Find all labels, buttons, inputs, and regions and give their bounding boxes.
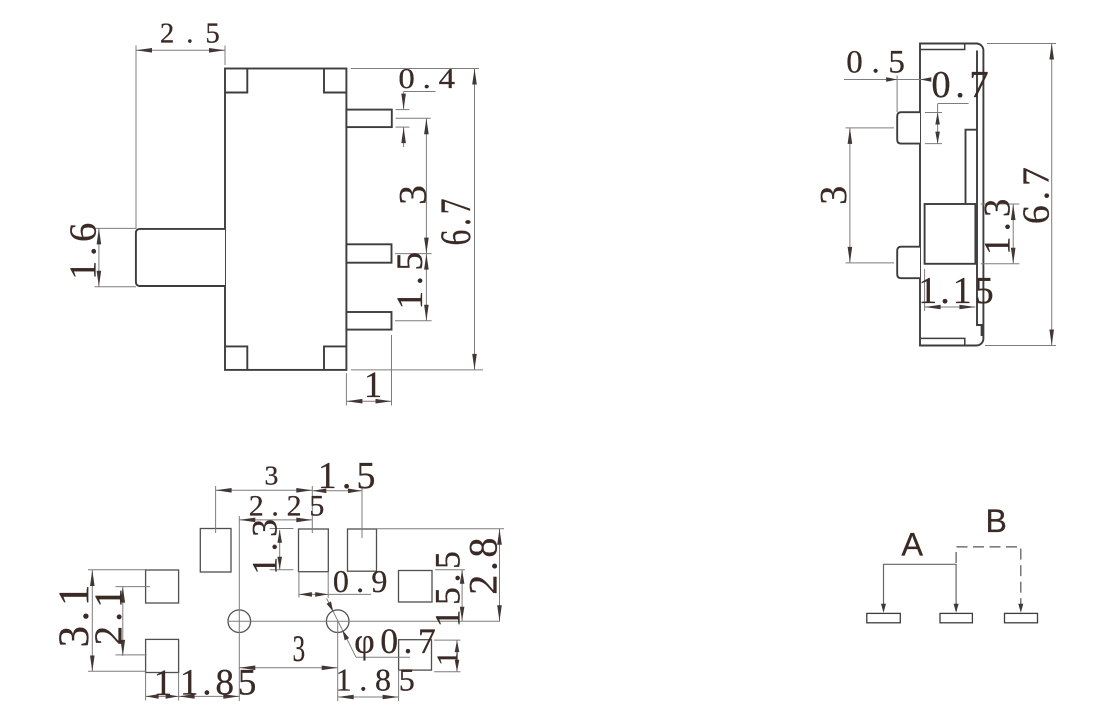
dim 2.8 pads to center xyxy=(377,529,506,622)
side view: bottom inner step xyxy=(921,338,965,345)
front view: switch body xyxy=(225,69,346,370)
svg-text:0.9: 0.9 xyxy=(333,563,395,599)
dim 1.6 handle height xyxy=(62,218,136,287)
footprint: circle1 vertical line xyxy=(238,516,240,701)
svg-text:3: 3 xyxy=(264,460,278,491)
footprint: pad 5 left upper xyxy=(146,570,179,603)
side view: actuator block xyxy=(925,204,976,264)
footprint: pad 6 left lower xyxy=(146,639,179,672)
footprint: center line xyxy=(228,620,501,622)
dim 3 bump pitch xyxy=(813,128,894,263)
front view: slider handle xyxy=(136,229,225,286)
side view: top inner step xyxy=(921,44,965,50)
dim 6.7 overall height xyxy=(351,69,483,370)
svg-text:1.85: 1.85 xyxy=(180,663,260,704)
dim 1 pad6 width xyxy=(146,663,179,704)
footprint: pad 2 middle xyxy=(299,529,329,572)
side view: inner ledge xyxy=(966,130,978,204)
svg-text:1: 1 xyxy=(364,364,382,405)
footprint: hole circle 1 xyxy=(228,610,251,633)
diagram: A connection path xyxy=(881,564,959,613)
diagram: terminal 2 xyxy=(940,613,972,622)
dim 0.7 bump width xyxy=(925,64,993,143)
diagram: terminal 3 xyxy=(1005,613,1038,622)
svg-text:0.7: 0.7 xyxy=(931,64,993,106)
front view: corner notches xyxy=(225,69,346,370)
svg-text:B: B xyxy=(986,503,1007,539)
dim 0.4 pin thickness xyxy=(396,63,463,147)
svg-text:φ0.7: φ0.7 xyxy=(354,621,441,661)
dim 1.5 pad pitch xyxy=(312,455,380,538)
svg-text:1.3: 1.3 xyxy=(244,513,284,574)
svg-text:1.5: 1.5 xyxy=(390,246,431,309)
dim 1.15 block width xyxy=(918,269,996,312)
svg-text:6.7: 6.7 xyxy=(1015,162,1057,224)
diagram: position B label xyxy=(986,503,1007,539)
side view: terminal bump 2 xyxy=(897,247,920,279)
svg-text:1.3: 1.3 xyxy=(977,194,1018,255)
footprint: hole circle 2 xyxy=(326,610,349,633)
dim 1.85 left xyxy=(179,663,261,704)
svg-text:3: 3 xyxy=(813,186,855,205)
dim 1 pin length xyxy=(346,335,391,406)
dim 1.3 block height xyxy=(977,194,1020,264)
side view: cover inner edge xyxy=(977,51,982,337)
dim 3 pad pitch xyxy=(216,460,313,533)
dim 2.1 pad pitch left xyxy=(87,584,150,656)
footprint: pad 4 right xyxy=(399,571,433,603)
dim 3.1 pads overall xyxy=(51,570,146,672)
side view: terminal bump 1 xyxy=(897,112,920,143)
front view: pin 1 xyxy=(346,110,391,128)
footprint: pad 1 top-left xyxy=(200,529,231,573)
svg-text:3: 3 xyxy=(391,185,435,205)
dim 6.7 overall height side xyxy=(985,44,1057,346)
svg-text:3: 3 xyxy=(292,628,305,669)
dim phi0.7 hole diameter leader xyxy=(327,598,442,661)
dim 1 pad7 height xyxy=(430,640,465,672)
side view: body outline xyxy=(920,44,983,346)
svg-text:6.7: 6.7 xyxy=(432,195,480,246)
svg-text:0.5: 0.5 xyxy=(846,45,913,81)
dim 2.5 handle travel xyxy=(136,18,232,229)
footprint: pad 7 bottom right xyxy=(399,640,432,670)
svg-text:A: A xyxy=(901,526,923,562)
dim 15.5 pad to center xyxy=(427,547,467,628)
svg-text:1.85: 1.85 xyxy=(336,662,423,698)
diagram: B connection path dashed xyxy=(956,547,1023,613)
diagram: terminal 1 xyxy=(867,613,901,622)
dim 0.9 pad width xyxy=(299,563,395,599)
svg-text:2.8: 2.8 xyxy=(461,534,506,595)
dim 0.5 bump protrusion xyxy=(844,45,931,112)
svg-text:1.15: 1.15 xyxy=(918,270,996,312)
dim 3 pin pitch xyxy=(391,118,435,253)
svg-text:0.4: 0.4 xyxy=(398,63,462,95)
front view: pin 3 xyxy=(346,312,391,330)
svg-text:1.6: 1.6 xyxy=(62,218,104,280)
svg-text:2.5: 2.5 xyxy=(160,18,232,50)
dim 1.5 pin pitch xyxy=(390,246,432,320)
dim 2.25 hole to pad xyxy=(239,489,332,522)
front view: pin 2 xyxy=(346,244,391,262)
footprint: pad 3 xyxy=(348,529,377,571)
footprint: circle2 vertical line xyxy=(337,621,339,701)
svg-text:2.1: 2.1 xyxy=(87,584,130,645)
diagram: position A label xyxy=(901,526,923,562)
svg-text:15.5: 15.5 xyxy=(427,547,467,628)
svg-text:1: 1 xyxy=(154,663,173,704)
dim 1.85 right xyxy=(336,662,423,701)
dim 1.3 pad height xyxy=(244,513,293,574)
dim 3 hole pitch xyxy=(239,628,337,670)
